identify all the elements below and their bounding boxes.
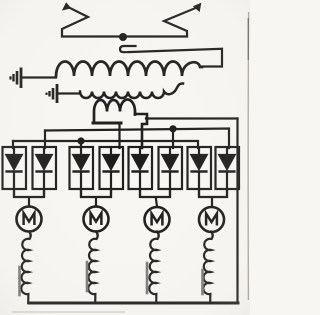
wire: junction down to rectifier D6 <box>172 129 174 148</box>
wire: rail B down to rectifier D1 <box>12 141 14 148</box>
node: rail A junction to D6 <box>169 125 176 132</box>
wire: L3 left end bar <box>93 122 121 125</box>
wire: rail B (lower distribution rail) <box>13 141 198 148</box>
wire: rail A down to rectifier D2 <box>44 131 46 149</box>
node: aerial junction dot <box>119 33 127 41</box>
inductor coil below M1 <box>21 232 30 304</box>
antenna left (adjustable aerial arrow) <box>62 3 88 36</box>
scan artifact: bottom smear <box>12 311 125 313</box>
ground G2 (secondary circuit) <box>47 84 58 103</box>
wire: bracket D1+D2 to motor M1 <box>14 189 44 207</box>
rectifier boxes row <box>3 147 240 197</box>
wire: bracket D7+D8 to motor M4 <box>199 189 227 207</box>
core bar below M3 <box>146 263 149 293</box>
inductor coil below M3 <box>149 232 158 304</box>
wire: bottom common rail <box>29 302 238 305</box>
core bar below M4 <box>201 270 204 294</box>
ground G1 (left, aerial circuit) <box>11 68 22 89</box>
core bar below M2 <box>86 262 89 291</box>
wire: rail to right edge (return bus) <box>146 117 238 119</box>
wire: rail A (upper distribution rail) <box>45 129 229 149</box>
rectifier D4 <box>100 147 124 197</box>
rectifier D5 <box>129 147 153 197</box>
inductor L1 primary coil <box>56 62 202 77</box>
rectifier D1 <box>3 147 27 197</box>
inductor coil below M4 <box>203 232 212 304</box>
rectifier D6 <box>159 147 183 197</box>
wire: ground G1 to primary coil L1 <box>22 76 56 78</box>
scan artifact: right page edge line <box>247 12 249 300</box>
rectifier D3 <box>70 147 94 197</box>
wire: junction down to rectifier D3 <box>80 141 82 148</box>
motor M3 <box>145 207 170 232</box>
wire: bracket D5+D6 to motor M3 <box>140 189 170 207</box>
wire: L3 left bar down to rectifier D4 <box>118 123 120 148</box>
inductor L3 coupled winding (3 humps) <box>94 100 135 124</box>
wire: L3 right end bar <box>135 114 147 148</box>
wire: right aerial to junction <box>123 35 187 37</box>
motor M1 <box>17 207 42 232</box>
wire: bracket D3+D4 to motor M2 <box>81 189 111 207</box>
wire: right edge vertical down to bottom rail <box>236 119 238 304</box>
antenna right (adjustable aerial arrow) <box>164 3 201 36</box>
rectifier D7 <box>188 147 212 197</box>
rectifier D8 <box>216 147 240 197</box>
motor M4 <box>199 207 224 232</box>
rectifier D2 <box>33 147 57 197</box>
inductor coil below M2 <box>88 232 97 304</box>
node: rail B junction to D3 <box>77 137 84 144</box>
wire: hook lead from junction area down to primary right end <box>120 46 222 67</box>
inductor L2 secondary winding (small loops) <box>80 83 183 98</box>
core bar below M1 <box>18 267 21 295</box>
wire: ground G2 to secondary coil L2 <box>58 92 80 94</box>
motor M2 <box>84 207 109 232</box>
wire: left aerial to junction <box>62 35 123 37</box>
